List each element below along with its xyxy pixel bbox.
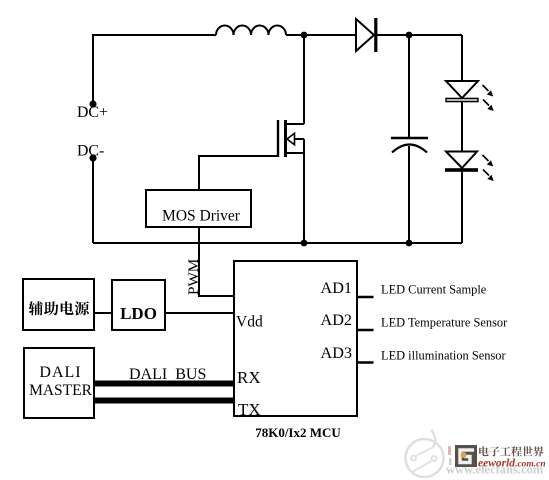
- wire bottom rail: [93, 242, 462, 244]
- LED1: [446, 81, 478, 102]
- wire diode cathode to LED branch corner: [377, 34, 462, 36]
- wire AD2 stub: [357, 329, 374, 331]
- LED2: [445, 152, 478, 172]
- svg-text:DALI: DALI: [39, 364, 81, 381]
- svg-text:DALI BUS: DALI BUS: [129, 366, 206, 383]
- wire MOSFET drain vertical: [303, 35, 305, 124]
- svg-text:LDO: LDO: [120, 304, 157, 323]
- svg-text:LED Temperature Sensor: LED Temperature Sensor: [381, 316, 508, 330]
- node C junction source/bottom rail: [301, 240, 308, 247]
- watermark logo circle (elecfans): [406, 430, 444, 478]
- svg-text:eeworld.com.cn: eeworld.com.cn: [478, 458, 546, 470]
- LED2 light arrow 1: [483, 155, 494, 167]
- svg-text:TX: TX: [238, 400, 261, 419]
- wire MOSFET source vertical to bottom rail: [303, 139, 305, 243]
- DALI MASTER box: [24, 348, 94, 418]
- svg-text:AD1: AD1: [321, 279, 352, 297]
- wire DC- vertical to bottom rail: [92, 158, 94, 243]
- svg-text:MOS Driver: MOS Driver: [162, 208, 241, 225]
- watermark stray marks left of logo: [448, 446, 452, 465]
- MOS Driver box U2: [146, 190, 251, 227]
- LED1 light arrow 1: [483, 85, 494, 97]
- DALI BUS bar RX: [94, 381, 234, 387]
- wire between LED1 and LED2: [461, 102, 463, 152]
- svg-text:AD3: AD3: [321, 344, 352, 362]
- node A junction inductor/drain: [301, 32, 308, 39]
- DALI BUS bar TX: [94, 398, 234, 404]
- op-amp U1 MCU 78K0/Ix2 box: [234, 261, 357, 416]
- wire LED2 to bottom rail: [461, 172, 463, 244]
- wire LDO to MCU Vdd: [165, 312, 234, 314]
- watermark chinese text 电子工程世界: [479, 446, 543, 456]
- wire gate lead to MOS Driver: [199, 156, 277, 190]
- svg-text:LED illumination Sensor: LED illumination Sensor: [381, 349, 506, 363]
- auxiliary power box 辅助电源: [23, 279, 94, 330]
- wire PWM from MOS Driver to MCU: [199, 227, 234, 296]
- node B junction diode/capacitor: [406, 32, 413, 39]
- svg-text:AD2: AD2: [321, 311, 352, 329]
- svg-text:PWM: PWM: [185, 258, 202, 295]
- LED2 light arrow 2: [483, 170, 494, 182]
- inductor L1: [216, 26, 286, 36]
- wire top rail left segment: [93, 35, 216, 104]
- svg-text:DC-: DC-: [77, 143, 104, 160]
- diode D1: [356, 18, 377, 52]
- watermark eeworld logo square: [455, 445, 477, 467]
- svg-text:78K0/Ix2 MCU: 78K0/Ix2 MCU: [255, 425, 341, 440]
- LDO box U3: [112, 280, 165, 330]
- LED1 light arrow 2: [483, 100, 494, 112]
- wire AD3 stub: [357, 361, 374, 363]
- capacitor C1: [391, 138, 428, 153]
- wire capacitor bottom: [408, 146, 410, 243]
- svg-text:LED Current Sample: LED Current Sample: [381, 283, 487, 297]
- wire capacitor top: [408, 35, 410, 138]
- node DC- terminal dot: [89, 154, 96, 161]
- svg-text:MASTER: MASTER: [29, 382, 93, 399]
- node DC+ terminal dot: [89, 100, 96, 107]
- transistor Q1 MOSFET: [277, 120, 304, 157]
- svg-text:RX: RX: [237, 368, 261, 387]
- wire aux power to LDO: [94, 312, 112, 314]
- node D junction capacitor/bottom rail: [406, 240, 413, 247]
- wire LED branch top: [461, 35, 463, 81]
- svg-text:DC+: DC+: [77, 104, 108, 121]
- svg-text:Vdd: Vdd: [236, 314, 263, 331]
- wire AD1 stub: [357, 296, 374, 298]
- wire inductor to diode anode: [286, 34, 356, 36]
